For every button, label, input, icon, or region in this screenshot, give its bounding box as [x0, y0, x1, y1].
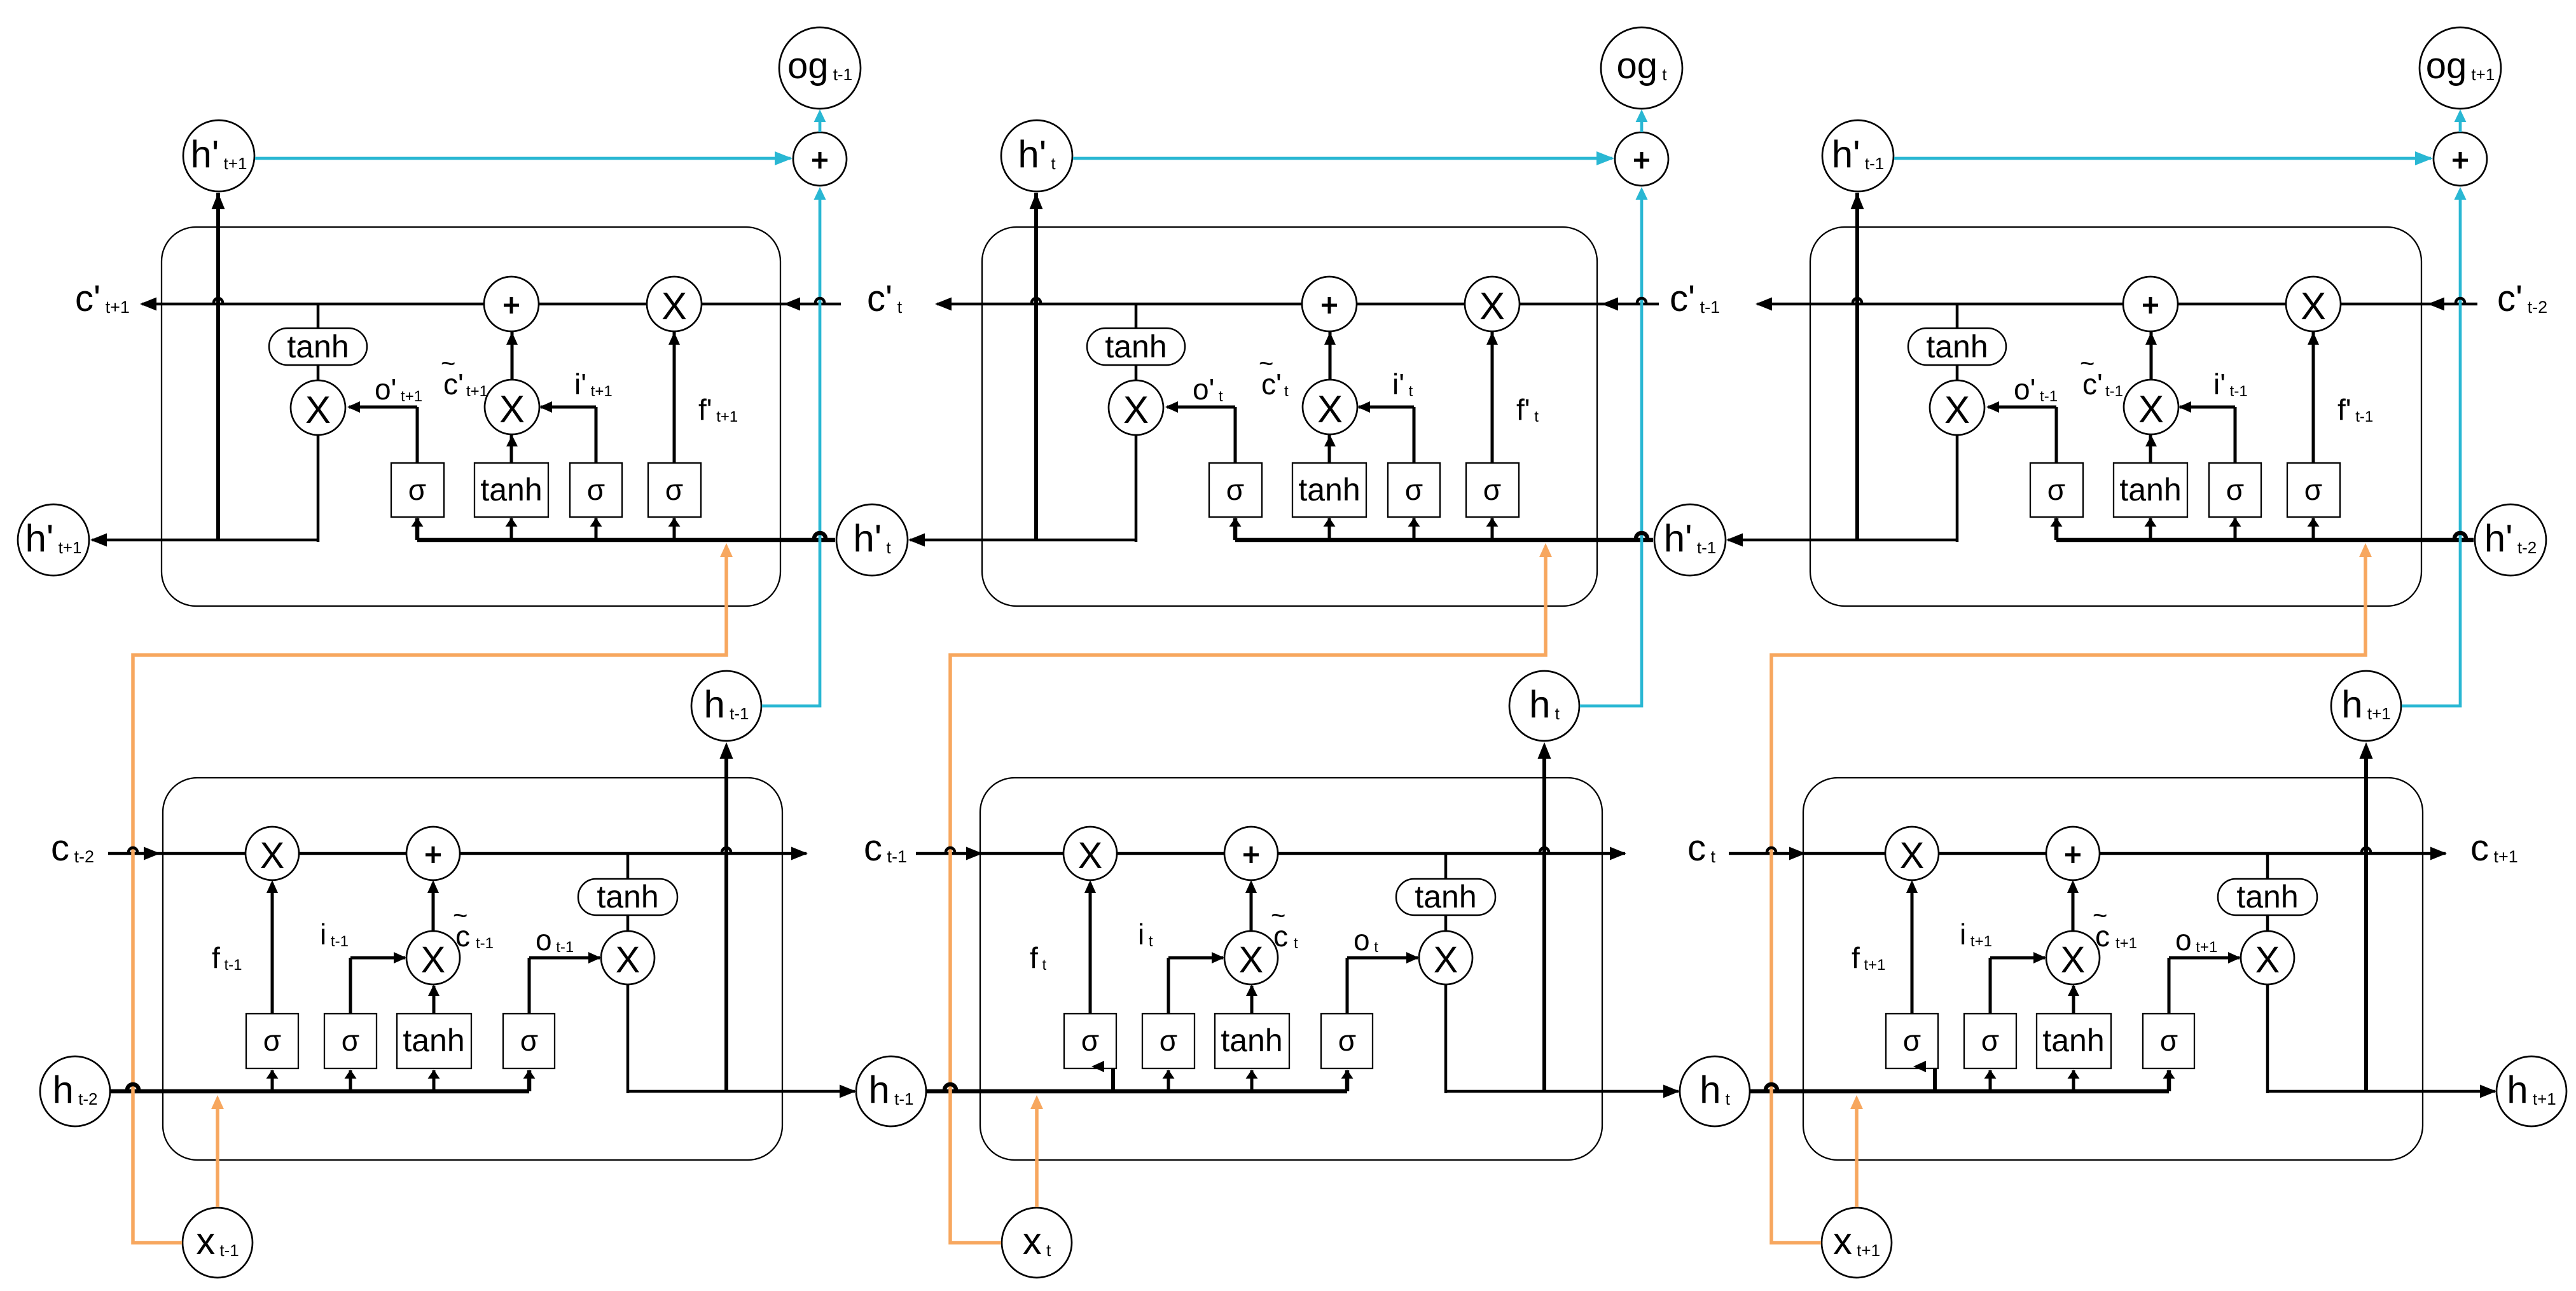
- svg-text:σ: σ: [1405, 473, 1423, 506]
- svg-text:tanh: tanh: [403, 1023, 464, 1058]
- svg-text:t+1: t+1: [466, 383, 488, 400]
- svg-text:X: X: [1317, 388, 1343, 431]
- svg-text:tanh: tanh: [1926, 329, 1988, 364]
- svg-text:~: ~: [441, 350, 455, 378]
- svg-text:~: ~: [2080, 350, 2095, 378]
- svg-text:X: X: [260, 835, 285, 876]
- svg-text:tanh: tanh: [2236, 879, 2298, 915]
- svg-text:X: X: [1078, 835, 1103, 876]
- svg-text:σ: σ: [1483, 473, 1501, 506]
- svg-text:X: X: [2301, 285, 2326, 328]
- svg-text:~: ~: [453, 902, 467, 930]
- svg-text:t+1: t+1: [2116, 935, 2137, 952]
- svg-text:X: X: [421, 939, 446, 981]
- svg-text:X: X: [1434, 939, 1458, 981]
- svg-text:σ: σ: [520, 1024, 538, 1057]
- svg-text:X: X: [1944, 389, 1970, 431]
- svg-text:X: X: [2138, 388, 2164, 431]
- svg-text:tanh: tanh: [480, 472, 542, 507]
- svg-text:X: X: [616, 939, 641, 981]
- svg-text:t-1: t-1: [2105, 383, 2123, 400]
- svg-text:X: X: [661, 285, 687, 328]
- svg-text:~: ~: [2093, 902, 2107, 930]
- svg-text:σ: σ: [1081, 1024, 1099, 1057]
- svg-text:σ: σ: [1981, 1024, 1999, 1057]
- svg-text:σ: σ: [1338, 1024, 1356, 1057]
- svg-text:σ: σ: [1160, 1024, 1177, 1057]
- svg-text:tanh: tanh: [1105, 329, 1167, 364]
- svg-text:t: t: [1284, 383, 1289, 400]
- svg-text:X: X: [499, 388, 525, 431]
- svg-text:σ: σ: [665, 473, 683, 506]
- svg-text:X: X: [2255, 939, 2280, 981]
- svg-text:σ: σ: [263, 1024, 281, 1057]
- svg-text:σ: σ: [2160, 1024, 2178, 1057]
- svg-text:X: X: [305, 389, 331, 431]
- svg-text:σ: σ: [1226, 473, 1244, 506]
- svg-text:X: X: [1239, 939, 1264, 981]
- svg-text:tanh: tanh: [2042, 1023, 2104, 1058]
- svg-text:X: X: [1479, 285, 1505, 328]
- svg-text:~: ~: [1271, 902, 1285, 930]
- svg-text:σ: σ: [587, 473, 605, 506]
- svg-text:σ: σ: [408, 473, 426, 506]
- svg-text:X: X: [1123, 389, 1149, 431]
- svg-text:tanh: tanh: [597, 879, 658, 915]
- svg-text:σ: σ: [2047, 473, 2065, 506]
- svg-text:~: ~: [1259, 350, 1273, 378]
- svg-text:t: t: [1294, 935, 1298, 952]
- svg-text:tanh: tanh: [287, 329, 349, 364]
- svg-text:σ: σ: [342, 1024, 359, 1057]
- svg-text:X: X: [1900, 835, 1925, 876]
- svg-text:σ: σ: [2304, 473, 2322, 506]
- svg-text:tanh: tanh: [1298, 472, 1360, 507]
- svg-text:σ: σ: [2226, 473, 2244, 506]
- svg-text:tanh: tanh: [1221, 1023, 1282, 1058]
- svg-text:t-1: t-1: [476, 935, 494, 952]
- svg-text:tanh: tanh: [1415, 879, 1476, 915]
- svg-text:tanh: tanh: [2119, 472, 2181, 507]
- svg-text:X: X: [2061, 939, 2086, 981]
- svg-text:σ: σ: [1903, 1024, 1921, 1057]
